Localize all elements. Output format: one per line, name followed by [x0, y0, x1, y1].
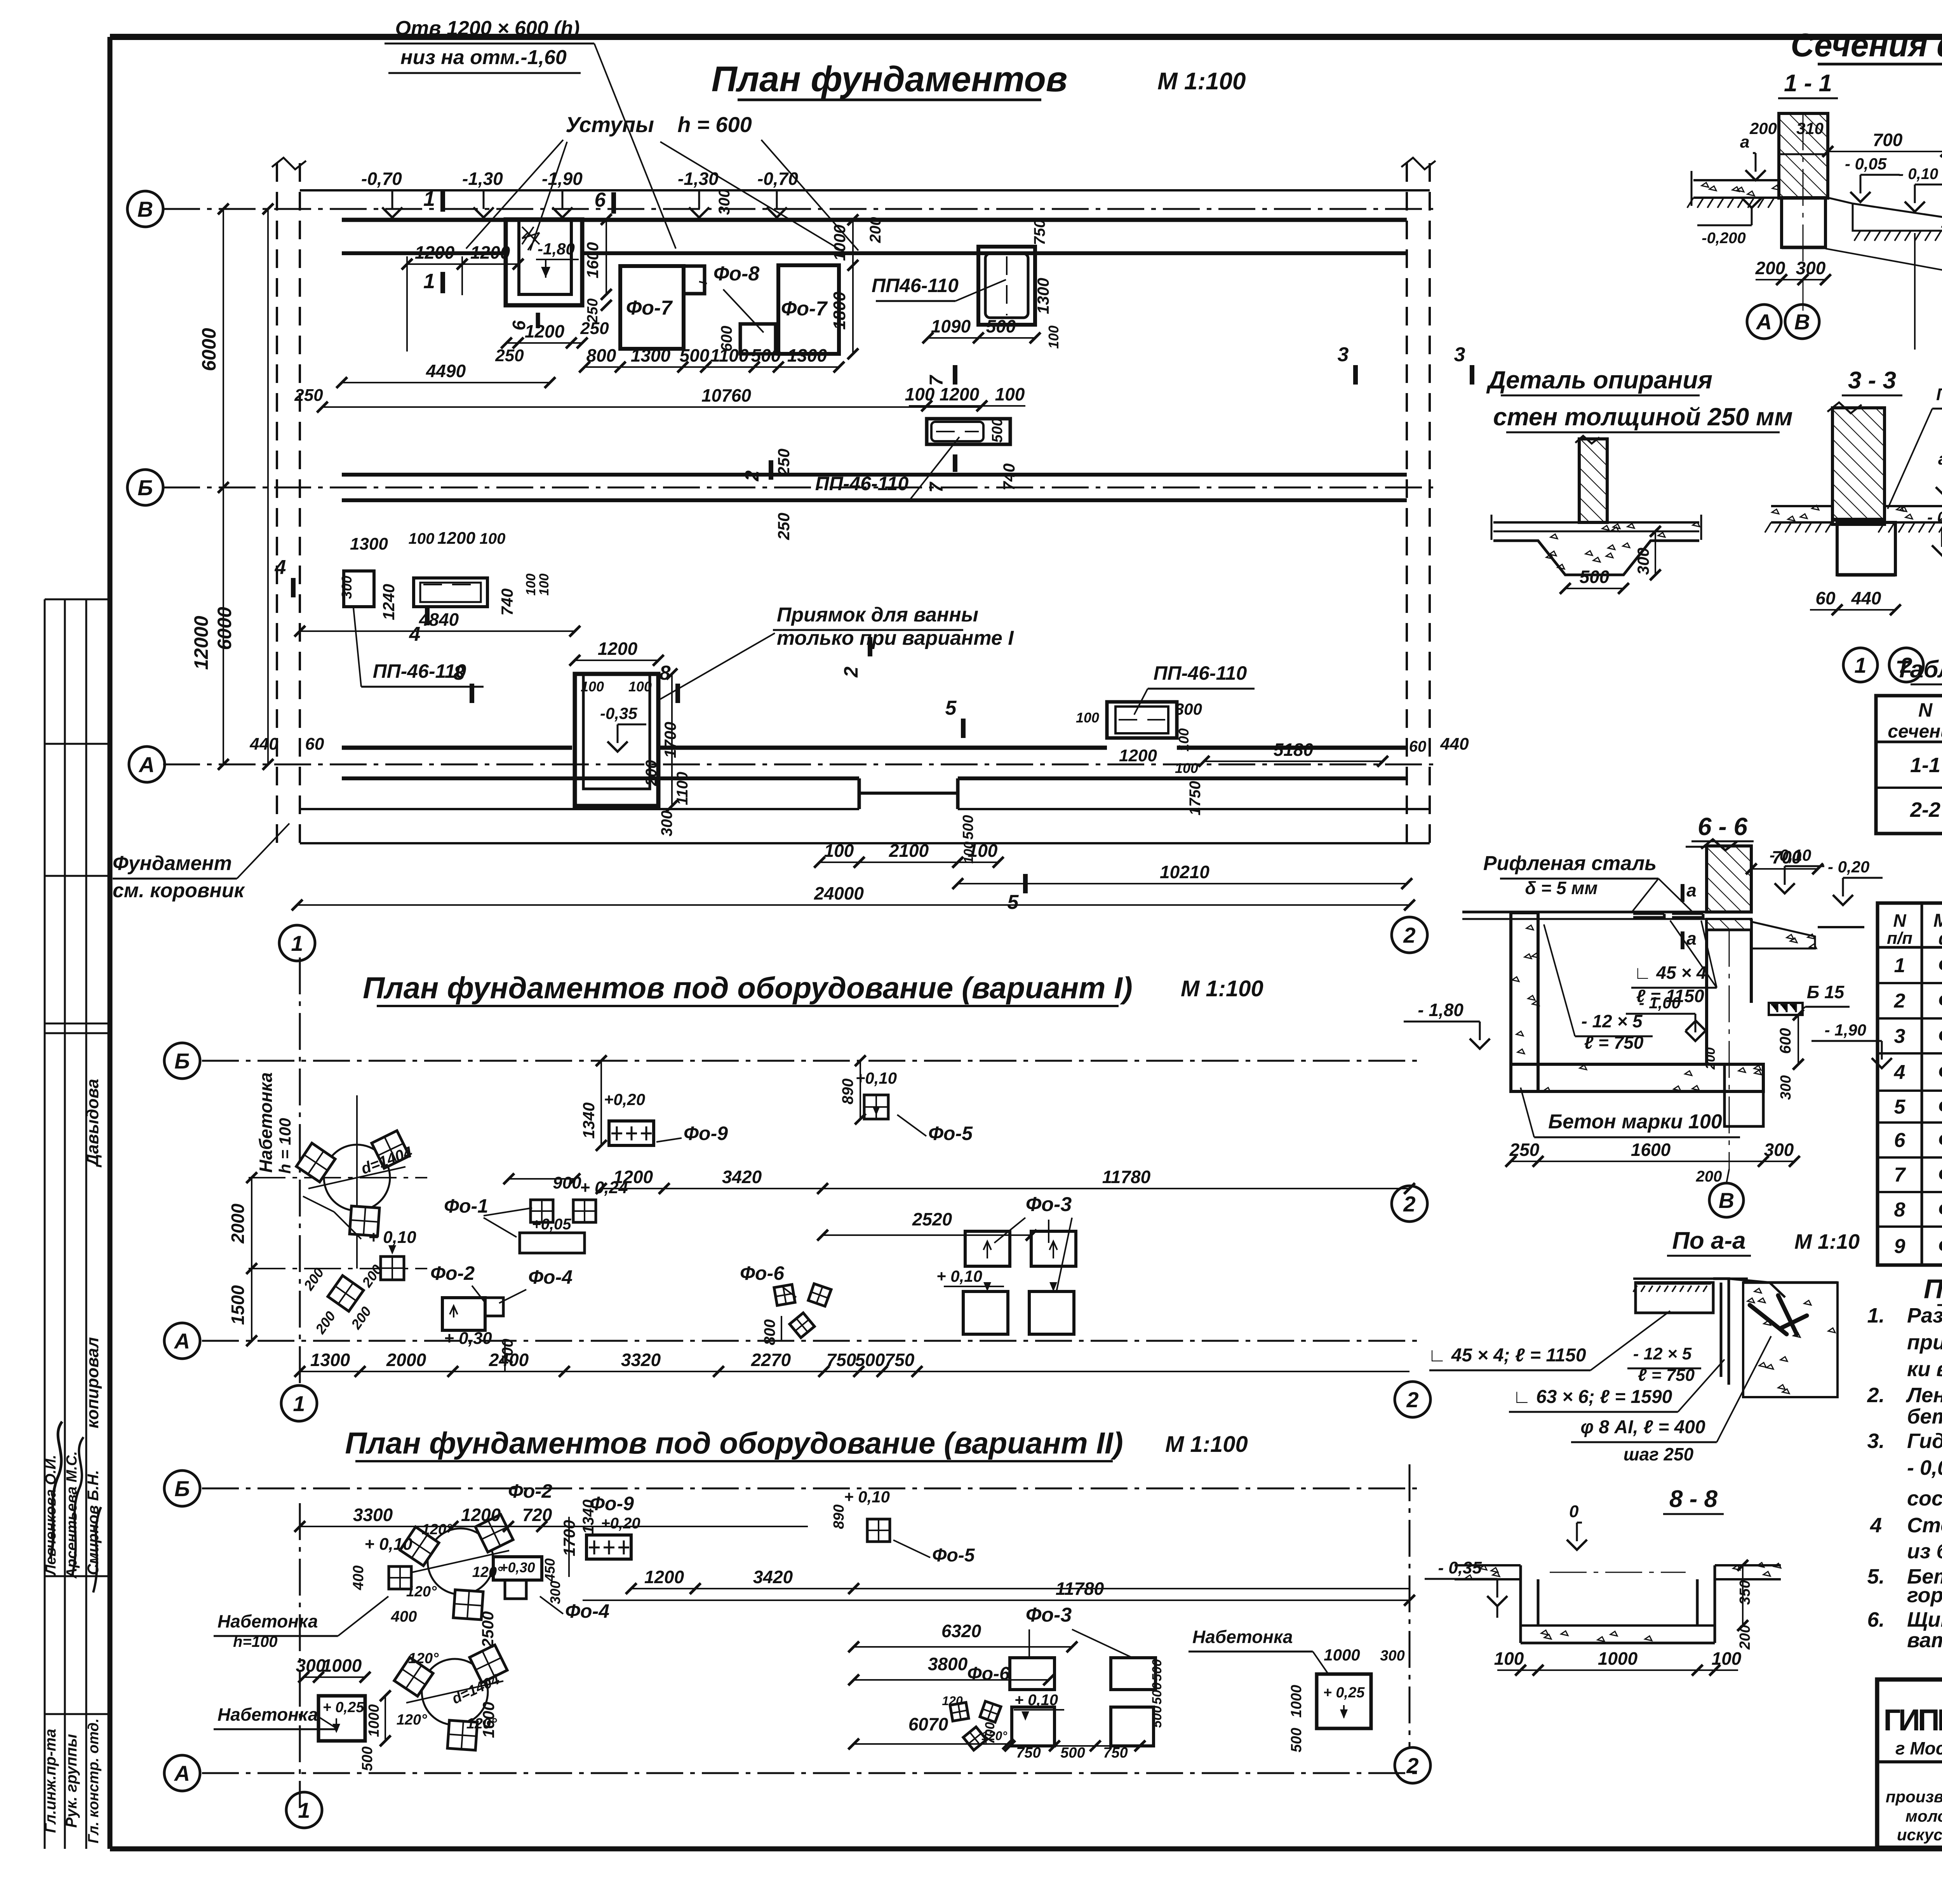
svg-text:1300: 1300 [787, 345, 827, 365]
svg-text:ПП-46-110: ПП-46-110 [373, 660, 466, 682]
left axis vertical dim 6000/6000/12000 [223, 209, 224, 764]
svg-text:7: 7 [1894, 1164, 1906, 1186]
svg-text:1100: 1100 [674, 772, 691, 805]
Фо-9 block [609, 1121, 654, 1145]
svg-text:1600: 1600 [1631, 1140, 1671, 1160]
6-6 bottom dims [1511, 1161, 1794, 1162]
6-6 column body [1705, 919, 1708, 1064]
svg-text:Фо-7: Фо-7 [781, 298, 828, 320]
svg-text:h = 100: h = 100 [276, 1118, 294, 1174]
svg-text:1700: 1700 [661, 722, 679, 758]
plan I circle 1 bottom [281, 1385, 317, 1421]
svg-text:По а-а: По а-а [1672, 1227, 1745, 1254]
8-8 elevation 0 [1567, 1540, 1587, 1550]
svg-text:100: 100 [1175, 760, 1198, 776]
svg-text:Фундамент: Фундамент [113, 852, 232, 875]
svg-text:-1,80: -1,80 [538, 240, 575, 258]
svg-text:Гл.инж.пр-та: Гл.инж.пр-та [42, 1729, 59, 1833]
plan II axis 2 [1409, 1464, 1411, 1748]
svg-text:4: 4 [1870, 1514, 1882, 1537]
svg-text:350: 350 [1737, 1580, 1753, 1605]
1-1 axis circles [1747, 305, 1781, 339]
channel ПП46-110 top [978, 247, 1035, 325]
svg-text:Фо-5: Фо-5 [1938, 1095, 1942, 1118]
svg-text:1200: 1200 [940, 384, 980, 404]
svg-text:100: 100 [581, 679, 604, 694]
left wall dashed [276, 163, 278, 843]
leader набетонка [303, 1196, 334, 1212]
svg-text:Фо-9: Фо-9 [684, 1123, 728, 1144]
svg-text:5: 5 [945, 697, 957, 719]
svg-text:- 0,05 из слоя цементного: - 0,05 из слоя цементного раствора на це… [1907, 1456, 1942, 1479]
svg-text:-0,70: -0,70 [757, 169, 798, 189]
svg-text:а: а [1938, 449, 1942, 468]
svg-text:3420: 3420 [722, 1167, 762, 1187]
svg-text:6: 6 [1894, 1129, 1906, 1152]
wall А band [342, 746, 572, 750]
svg-text:1-1: 1-1 [1910, 754, 1940, 777]
8-8 bottom slab [1521, 1624, 1715, 1627]
svg-text:100: 100 [905, 384, 935, 404]
svg-text:750: 750 [1031, 219, 1048, 245]
svg-text:250: 250 [580, 319, 609, 338]
svg-text:100: 100 [1712, 1648, 1742, 1669]
svg-text:300: 300 [1796, 258, 1826, 278]
svg-text:стен толщиной 250 мм: стен толщиной 250 мм [1493, 403, 1792, 431]
svg-text:1200: 1200 [613, 1167, 653, 1187]
left signature strip [44, 599, 46, 1849]
svg-text:300: 300 [1175, 700, 1202, 718]
svg-text:1300: 1300 [350, 534, 388, 553]
cut 6 top [611, 192, 616, 214]
svg-text:-1,90: -1,90 [542, 169, 583, 189]
svg-text:3300: 3300 [353, 1505, 393, 1525]
svg-text:3.: 3. [1867, 1429, 1885, 1453]
axis Б dash-dot [163, 487, 1433, 489]
svg-text:100: 100 [1176, 728, 1192, 752]
1-1 bottom dims [1756, 279, 1825, 280]
svg-text:Давыдова: Давыдова [83, 1079, 102, 1168]
svg-text:500: 500 [1060, 1745, 1085, 1761]
svg-text:800: 800 [586, 345, 616, 365]
svg-text:250: 250 [774, 513, 793, 540]
svg-text:Ленточные фундаменты выполня: Ленточные фундаменты выполняются из буто… [1905, 1384, 1942, 1407]
svg-text:300: 300 [1634, 548, 1652, 575]
svg-text:6000: 6000 [198, 328, 220, 371]
svg-text:120°: 120° [397, 1712, 427, 1728]
svg-text:Фо-9: Фо-9 [1938, 1234, 1942, 1258]
svg-text:1: 1 [1854, 653, 1866, 677]
svg-text:3 - 3: 3 - 3 [1848, 367, 1896, 394]
8-8 elevation -0,35 [1487, 1596, 1507, 1606]
channel ПП-46-110 #2 horizontal [927, 419, 1010, 444]
svg-text:750: 750 [885, 1350, 915, 1370]
svg-text:N: N [1893, 910, 1906, 931]
1-1 left slab [1693, 179, 1779, 181]
svg-text:1200: 1200 [525, 321, 565, 341]
svg-text:только при варианте I: только при варианте I [777, 627, 1014, 649]
svg-text:- 0,10: - 0,10 [1898, 165, 1938, 183]
svg-text:120: 120 [942, 1694, 963, 1708]
svg-text:-0,200: -0,200 [1702, 230, 1745, 247]
a-a top plate [1633, 1277, 1748, 1280]
svg-text:120°: 120° [408, 1650, 439, 1667]
svg-text:5: 5 [1894, 1096, 1906, 1118]
svg-text:Фо-6: Фо-6 [740, 1262, 785, 1284]
svg-text:Гл. констр. отд.: Гл. констр. отд. [85, 1718, 102, 1843]
3-3 column [1832, 408, 1885, 524]
svg-text:копировал: копировал [83, 1337, 102, 1428]
axis circle В [127, 191, 163, 227]
набетонка rect left [318, 1696, 365, 1741]
plan I axis 1 vertical [299, 957, 301, 1387]
svg-text:- 1,80: - 1,80 [1418, 1000, 1463, 1020]
svg-text:440: 440 [1851, 588, 1881, 608]
svg-text:8 - 8: 8 - 8 [1669, 1486, 1718, 1512]
plan II circle 1 [286, 1792, 322, 1828]
svg-text:А: А [174, 1329, 190, 1353]
block Фо-8 small [740, 324, 776, 354]
svg-text:Таблица нормативных нагрузок: Таблица нормативных нагрузок на верхний … [1895, 656, 1942, 683]
svg-text:Гидроизоляция для кирпичной: Гидроизоляция для кирпичной кладки выпол… [1907, 1429, 1942, 1453]
svg-text:молока в сутки с пунктом: молока в сутки с пунктом [1905, 1807, 1942, 1825]
svg-text:100: 100 [524, 574, 538, 596]
svg-text:250: 250 [774, 449, 793, 476]
svg-text:∟ 45 × 4; ℓ = 1150: ∟ 45 × 4; ℓ = 1150 [1428, 1345, 1586, 1366]
svg-text:1200: 1200 [415, 242, 455, 263]
cut 2 marks [769, 460, 773, 480]
svg-text:из бетона марки 100.: из бетона марки 100. [1907, 1540, 1942, 1563]
svg-text:1100: 1100 [710, 345, 749, 365]
svg-text:12000: 12000 [190, 616, 212, 670]
title block [1877, 1679, 1942, 1848]
svg-text:2.: 2. [1867, 1384, 1885, 1407]
svg-text:- 0,10: - 0,10 [1770, 846, 1811, 864]
svg-text:горячим битумом за 2 раза.: горячим битумом за 2 раза. [1907, 1584, 1942, 1607]
svg-text:Бетон марки 100: Бетон марки 100 [1548, 1110, 1722, 1133]
svg-text:1200: 1200 [644, 1567, 684, 1587]
1-1 footing [1782, 198, 1825, 247]
dims 1200 3420 [631, 1588, 1410, 1589]
svg-text:δ = 5 мм: δ = 5 мм [1525, 878, 1598, 898]
svg-text:2100: 2100 [889, 841, 929, 861]
svg-text:500: 500 [751, 345, 781, 365]
svg-text:2520: 2520 [912, 1209, 952, 1229]
svg-text:1200: 1200 [437, 529, 475, 548]
svg-text:состава 1:2 толщиной 20мм.: состава 1:2 толщиной 20мм. [1907, 1487, 1942, 1510]
svg-text:Б: Б [137, 475, 153, 500]
svg-text:ПП-46-110: ПП-46-110 [815, 473, 909, 494]
svg-text:300: 300 [547, 1581, 563, 1604]
svg-text:1 - 1: 1 - 1 [1784, 70, 1832, 97]
svg-text:Фо-7: Фо-7 [1938, 1163, 1942, 1186]
signatures [50, 1422, 62, 1558]
plan II circle 2 bottom [1395, 1747, 1430, 1783]
svg-text:8: 8 [1894, 1199, 1905, 1221]
svg-text:750: 750 [827, 1350, 856, 1370]
svg-text:ватными плитами δ=50мм. Щит: ватными плитами δ=50мм. Щит обшит кровел… [1907, 1629, 1942, 1652]
svg-text:шаг 250: шаг 250 [1624, 1444, 1694, 1464]
svg-text:искусственного осеменения: искусственного осеменения [1897, 1826, 1942, 1844]
svg-text:1340: 1340 [579, 1102, 598, 1138]
svg-text:400: 400 [391, 1608, 417, 1625]
elevation -0,70 left [382, 207, 402, 218]
elevation -1,30 [473, 207, 494, 218]
svg-text:Приямок для ванны: Приямок для ванны [777, 604, 978, 626]
svg-text:9: 9 [1894, 1235, 1905, 1258]
leaders Уступы [466, 140, 563, 249]
svg-text:60: 60 [1815, 588, 1836, 608]
svg-text:400: 400 [350, 1565, 367, 1590]
svg-text:1: 1 [423, 270, 435, 293]
wall break squiggle top left [272, 158, 306, 169]
svg-text:+ 0,30: + 0,30 [444, 1329, 492, 1348]
leader Отв [594, 44, 676, 249]
svg-text:- 1,00: - 1,00 [1639, 994, 1681, 1012]
a-a anchor hooks [1750, 1295, 1807, 1334]
svg-text:1200: 1200 [461, 1505, 501, 1525]
svg-text:- 0,35: - 0,35 [1438, 1558, 1482, 1577]
svg-text:11780: 11780 [1056, 1579, 1104, 1599]
svg-text:1300: 1300 [631, 345, 671, 365]
svg-text:300: 300 [1778, 1075, 1794, 1100]
svg-text:3: 3 [1454, 343, 1465, 366]
svg-text:Стенки и дно подпольных ка: Стенки и дно подпольных каналов и приямк… [1907, 1514, 1942, 1537]
svg-text:Фо-8: Фо-8 [1938, 1198, 1942, 1221]
svg-text:1300: 1300 [310, 1350, 350, 1370]
cut 1 top [440, 190, 445, 212]
plan II circle Б [164, 1471, 200, 1506]
6-6 left wall [1511, 913, 1538, 1091]
svg-text:250: 250 [1509, 1140, 1540, 1160]
svg-text:200: 200 [1755, 258, 1785, 278]
svg-text:+0,05: +0,05 [532, 1216, 571, 1233]
svg-text:6: 6 [595, 189, 606, 211]
svg-text:500: 500 [986, 316, 1016, 336]
svg-text:500: 500 [1150, 1659, 1164, 1681]
svg-text:+0,10: +0,10 [856, 1069, 897, 1087]
svg-text:1: 1 [423, 187, 435, 211]
svg-text:∟ 45 × 4: ∟ 45 × 4 [1634, 962, 1707, 983]
svg-text:Фо-3: Фо-3 [1938, 1024, 1942, 1048]
svg-text:1200: 1200 [470, 242, 510, 263]
dim 4490 [342, 382, 550, 383]
axis А dash-dot [163, 764, 1433, 766]
svg-text:1600: 1600 [479, 1702, 498, 1738]
svg-text:2: 2 [1406, 1753, 1418, 1778]
svg-text:-0,70: -0,70 [361, 169, 402, 189]
plan II axis А [202, 1772, 1422, 1774]
svg-text:4: 4 [1894, 1061, 1905, 1084]
plan I circle 2 [1392, 1186, 1427, 1222]
load table grid [1876, 696, 1942, 834]
plan I mid dashdot lines [249, 1177, 427, 1178]
svg-text:Фо-1: Фо-1 [444, 1195, 488, 1217]
svg-text:ℓ = 750: ℓ = 750 [1638, 1366, 1695, 1385]
svg-text:100: 100 [1046, 325, 1061, 349]
svg-text:100: 100 [537, 574, 552, 596]
plan I circle А [164, 1323, 200, 1359]
svg-text:Фо-5: Фо-5 [932, 1545, 975, 1566]
svg-text:750: 750 [1103, 1745, 1128, 1761]
svg-text:N: N [1918, 699, 1933, 721]
sq +0,10 [389, 1566, 411, 1589]
svg-text:750: 750 [1016, 1745, 1041, 1761]
svg-text:310: 310 [1796, 119, 1824, 137]
6-6 riffled steel plates [1633, 914, 1703, 917]
svg-text:-1,30: -1,30 [678, 169, 719, 189]
svg-text:1750: 1750 [1187, 781, 1204, 816]
svg-text:200: 200 [867, 217, 884, 244]
dim 1200 3420 11780 [601, 1188, 1410, 1189]
1-1 dims top [1828, 151, 1942, 152]
svg-text:700: 700 [983, 1722, 997, 1744]
cut 5 marks [961, 719, 966, 738]
svg-text:500: 500 [1580, 567, 1610, 587]
svg-text:Щит выполнен из досок толщ: Щит выполнен из досок толщиной 20мм, уте… [1907, 1608, 1942, 1631]
svg-text:7: 7 [926, 481, 947, 493]
svg-text:2: 2 [840, 667, 862, 678]
svg-text:- 0,05: - 0,05 [1845, 155, 1887, 173]
6-6 a-a cut marks [1681, 884, 1684, 902]
svg-text:1090: 1090 [931, 316, 971, 336]
plan I axis А [202, 1340, 1422, 1342]
svg-text:60: 60 [305, 734, 324, 754]
svg-text:6.: 6. [1867, 1608, 1885, 1631]
svg-text:1: 1 [293, 1391, 305, 1416]
plan II circle 2 top [1395, 1382, 1430, 1417]
svg-text:1340: 1340 [580, 1500, 597, 1534]
svg-text:100: 100 [409, 530, 435, 547]
Фо-8 notch [684, 266, 705, 294]
dims 3300 1200 720 [300, 1526, 808, 1527]
svg-text:500: 500 [1150, 1706, 1164, 1728]
plan I circle Б [164, 1043, 200, 1079]
1-1 elev -0,200 up [1742, 198, 1762, 208]
6-6 footing below [1724, 1064, 1763, 1126]
svg-text:План фундаментов под оборуд: План фундаментов под оборудование (вариа… [363, 971, 1133, 1005]
svg-text:Сечения фундаментов: Сечения фундаментов [1791, 27, 1942, 63]
svg-text:1000: 1000 [1598, 1648, 1638, 1669]
svg-text:- 1,90: - 1,90 [1825, 1021, 1866, 1039]
svg-text:Фо-8: Фо-8 [713, 263, 760, 285]
8-8 left slab [1455, 1564, 1521, 1566]
svg-text:Фо-3: Фо-3 [1026, 1604, 1072, 1626]
svg-text:500: 500 [960, 815, 976, 839]
svg-text:Арсентьева М.С.: Арсентьева М.С. [64, 1451, 80, 1579]
lower interior channel [858, 778, 861, 809]
svg-text:11780: 11780 [1102, 1167, 1151, 1187]
a-a left block [1636, 1283, 1713, 1313]
3-3 slabs [1771, 505, 1832, 507]
axis circle Б [127, 470, 163, 505]
dim 24000 [297, 904, 1410, 906]
svg-text:М 1:100: М 1:100 [1165, 1432, 1248, 1457]
svg-text:- 12 × 5: - 12 × 5 [1633, 1344, 1692, 1363]
8-8 dashdot [1550, 1572, 1686, 1573]
svg-text:Фо-4: Фо-4 [1938, 1060, 1942, 1084]
cut 6 pit [536, 313, 540, 328]
svg-text:2000: 2000 [228, 1203, 248, 1244]
detail slab [1493, 521, 1699, 524]
plan I axis Б [202, 1060, 1422, 1062]
svg-text:ПП-46-110: ПП-46-110 [1154, 662, 1247, 684]
svg-text:ГИПРОНИСЕЛЬХОЗ: ГИПРОНИСЕЛЬХОЗ [1883, 1703, 1942, 1737]
svg-text:5.: 5. [1867, 1565, 1885, 1588]
svg-text:1000: 1000 [1288, 1685, 1305, 1718]
svg-text:М 1:100: М 1:100 [1157, 68, 1246, 95]
dims 100 1200 100 [909, 405, 1025, 407]
right wall dashed [1406, 163, 1408, 843]
svg-text:6320: 6320 [941, 1621, 981, 1641]
small sq +0.10 plan I [381, 1257, 404, 1280]
dim 11780 [583, 1599, 1410, 1601]
plan II axis Б [202, 1488, 1422, 1490]
3-3 axis circles [1843, 648, 1878, 682]
svg-text:План фундаментов: План фундаментов [712, 59, 1068, 99]
svg-text:500: 500 [855, 1350, 885, 1370]
dim 1200 1200 top [406, 256, 408, 352]
svg-text:Б 15: Б 15 [1807, 982, 1845, 1002]
svg-text:1200: 1200 [1119, 746, 1157, 765]
svg-text:740: 740 [1000, 463, 1018, 491]
mid channel left (axis4) [344, 571, 374, 607]
svg-text:8: 8 [454, 662, 465, 684]
svg-text:100: 100 [995, 384, 1025, 404]
svg-text:800: 800 [761, 1319, 778, 1345]
svg-text:В: В [137, 197, 153, 221]
svg-text:2400: 2400 [489, 1350, 529, 1370]
svg-text:500: 500 [1288, 1728, 1305, 1752]
opening pit Отв (top) [506, 219, 582, 305]
svg-text:Гидроизоляция на отм.-0,05: Гидроизоляция на отм.-0,05 [1936, 385, 1942, 404]
svg-text:h = 600: h = 600 [677, 112, 752, 137]
svg-text:а: а [1686, 880, 1697, 900]
a-a angle bracket [1713, 1279, 1729, 1385]
svg-text:Отв 1200 × 600 (h): Отв 1200 × 600 (h) [395, 17, 579, 40]
svg-text:1200: 1200 [598, 639, 638, 659]
3-3 footing [1837, 522, 1895, 575]
svg-text:1: 1 [1894, 954, 1905, 977]
svg-text:1000: 1000 [830, 225, 849, 261]
svg-text:+ 0,10: + 0,10 [368, 1228, 416, 1247]
svg-text:М 1:100: М 1:100 [1181, 976, 1263, 1001]
svg-text:+0,30: +0,30 [499, 1559, 535, 1575]
plan I vertical dims 2000 1500 [251, 1178, 252, 1341]
svg-text:5: 5 [1008, 891, 1019, 914]
svg-text:890: 890 [839, 1079, 856, 1105]
rotary platforms plan II [428, 1528, 494, 1594]
svg-text:Фо-4: Фо-4 [565, 1600, 609, 1622]
svg-text:200: 200 [1749, 119, 1777, 137]
svg-text:производительностью 6 тонн: производительностью 6 тонн [1886, 1787, 1942, 1806]
svg-text:3: 3 [1894, 1025, 1905, 1048]
svg-text:Смирнов Б.Н.: Смирнов Б.Н. [85, 1470, 102, 1575]
svg-text:Размеры подошвы фундаментов: Размеры подошвы фундаментов и заглублени… [1907, 1304, 1942, 1327]
svg-text:- 0,20: - 0,20 [1927, 508, 1942, 526]
svg-text:2-2: 2-2 [1910, 798, 1940, 821]
8-8 dims [1497, 1669, 1738, 1671]
8-8 channel walls [1519, 1565, 1522, 1643]
cut 8 marks [470, 684, 474, 703]
svg-text:+ 0,10: + 0,10 [844, 1488, 890, 1506]
svg-text:250: 250 [294, 386, 323, 405]
svg-text:4490: 4490 [426, 361, 466, 381]
svg-text:890: 890 [831, 1504, 847, 1529]
svg-text:100: 100 [628, 679, 652, 694]
svg-text:6 - 6: 6 - 6 [1698, 813, 1747, 841]
svg-text:ℓ = 750: ℓ = 750 [1584, 1032, 1644, 1053]
